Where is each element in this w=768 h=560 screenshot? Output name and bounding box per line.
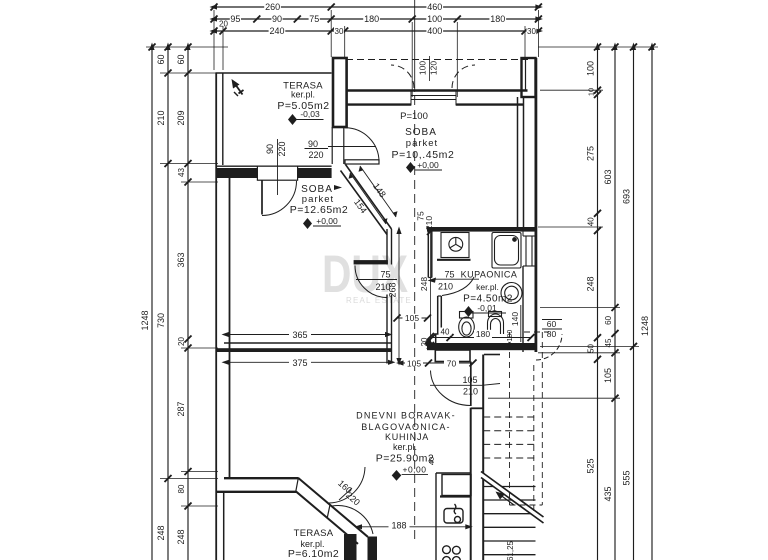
door/window right wall with dashed swing xyxy=(536,334,562,360)
dim 100/120 rotated window xyxy=(418,56,439,81)
terasa top edge xyxy=(216,72,332,74)
kitchen stove xyxy=(443,546,451,554)
svg-text:30: 30 xyxy=(527,27,536,36)
svg-text:70: 70 xyxy=(447,358,457,368)
svg-text:P=25.90m2: P=25.90m2 xyxy=(376,452,435,464)
svg-text:603: 603 xyxy=(603,169,613,184)
svg-text:180: 180 xyxy=(364,14,379,24)
wall terasa bottom / soba top xyxy=(216,58,537,560)
svg-text:95: 95 xyxy=(230,14,240,24)
svg-text:30: 30 xyxy=(335,27,344,36)
svg-text:400: 400 xyxy=(427,26,442,36)
svg-text:90: 90 xyxy=(265,144,275,154)
dimension chain right 100/10/275/40/248/50/525 xyxy=(586,43,602,560)
svg-text:90: 90 xyxy=(272,14,282,24)
dimension chain right 1248 xyxy=(640,43,656,560)
svg-text:1248: 1248 xyxy=(140,310,150,330)
wall soba bottom xyxy=(217,348,392,352)
svg-text:90: 90 xyxy=(308,139,318,149)
dim 90/220 rotated (soba door) xyxy=(265,139,287,195)
svg-text:120: 120 xyxy=(429,61,439,75)
centre axis line xyxy=(414,0,416,540)
extension lines left xyxy=(146,47,228,506)
svg-text:10: 10 xyxy=(587,88,596,96)
door terasa to soba (90/220) xyxy=(345,128,379,164)
svg-text:105: 105 xyxy=(462,375,477,385)
svg-text:275: 275 xyxy=(586,146,596,161)
svg-text:210: 210 xyxy=(424,216,434,230)
svg-text:209: 209 xyxy=(176,110,186,125)
dim 160/220 rotated terrace door xyxy=(336,478,362,507)
svg-text:75: 75 xyxy=(380,270,390,280)
wall terrace west parapet inner face xyxy=(223,492,225,560)
dim 75/210 hall door xyxy=(356,270,397,293)
svg-text:220: 220 xyxy=(277,141,287,156)
svg-text:43: 43 xyxy=(177,168,186,177)
room label living room xyxy=(356,410,456,481)
watermark DUX logo xyxy=(322,245,412,305)
door hall to soba (75/210) xyxy=(354,261,388,298)
dimension chain left 60/210/730/248 xyxy=(156,43,172,560)
wall bathroom left upper xyxy=(427,232,429,278)
svg-text:180: 180 xyxy=(476,329,490,339)
wall bathroom bottom xyxy=(427,343,535,350)
balcony slab edge xyxy=(346,89,528,91)
svg-text:248: 248 xyxy=(586,276,596,291)
dim 75/210 rotated bathroom door xyxy=(416,211,435,230)
svg-text:P=6.10m2: P=6.10m2 xyxy=(288,548,339,560)
wall soba bottom top face xyxy=(224,342,392,344)
wall terrace north edge xyxy=(216,491,296,493)
svg-text:60: 60 xyxy=(156,54,166,64)
svg-text:555: 555 xyxy=(622,470,632,485)
svg-text:BLAGOVAONICA-: BLAGOVAONICA- xyxy=(361,422,450,432)
kitchen sink xyxy=(444,509,463,524)
room label kupaonica xyxy=(428,270,518,318)
dim 268 hall xyxy=(388,227,402,366)
svg-text:-0,03: -0,03 xyxy=(300,109,320,119)
svg-text:210: 210 xyxy=(156,110,166,125)
svg-text:248: 248 xyxy=(419,277,429,291)
wall terasa/soba partition xyxy=(333,58,347,127)
dim 140 rotated bathroom xyxy=(510,305,521,342)
svg-text:100: 100 xyxy=(418,61,428,75)
room label terasa top xyxy=(277,81,329,126)
entrance doorstep xyxy=(435,350,470,362)
wall soba east xyxy=(517,97,519,227)
svg-text:105: 105 xyxy=(407,358,421,368)
svg-text:+0,00: +0,00 xyxy=(316,216,338,226)
wall terrace right stub xyxy=(344,534,357,560)
svg-text:100: 100 xyxy=(586,61,596,76)
svg-text:20: 20 xyxy=(177,337,186,346)
svg-text:+0,00: +0,00 xyxy=(417,160,439,170)
svg-text:75: 75 xyxy=(309,14,319,24)
dim 60/80 right wall xyxy=(542,319,562,339)
svg-text:210: 210 xyxy=(463,387,478,397)
svg-text:40: 40 xyxy=(441,327,450,336)
wall bathroom left lower xyxy=(437,296,439,334)
svg-text:287: 287 xyxy=(176,401,186,416)
dimension chain right 603/60/45/105/435 xyxy=(603,43,619,560)
svg-text:40: 40 xyxy=(427,457,436,465)
svg-text:260: 260 xyxy=(265,2,280,12)
dimension chain top row3 20/240/30/400/30 xyxy=(210,20,544,37)
balcony dashed outline top xyxy=(346,60,528,89)
room label soba north xyxy=(392,127,455,173)
svg-text:75: 75 xyxy=(444,270,454,280)
svg-text:50: 50 xyxy=(587,344,596,353)
kitchen counter xyxy=(436,473,471,560)
svg-text:KUHINJA: KUHINJA xyxy=(385,432,429,442)
svg-text:61,25: 61,25 xyxy=(506,540,515,560)
dim 90/220 horizontal (terasa door) xyxy=(305,139,377,160)
wall living room south edge xyxy=(224,477,299,479)
svg-text:20: 20 xyxy=(219,20,228,29)
svg-text:180: 180 xyxy=(490,14,505,24)
door entrance (105/210) xyxy=(431,362,471,407)
dimension chain right 693/555 xyxy=(622,43,638,560)
svg-text:-0,01: -0,01 xyxy=(477,303,497,313)
room label terasa bottom xyxy=(288,528,339,560)
svg-text:248: 248 xyxy=(156,525,166,540)
dim 248/20 rotated bathroom wall xyxy=(419,228,434,349)
svg-text:248: 248 xyxy=(176,529,186,544)
svg-text:105: 105 xyxy=(603,368,613,383)
bathtub xyxy=(492,233,521,269)
bidet xyxy=(488,312,504,335)
stairs diagonal break xyxy=(481,472,544,524)
wall diagonal soba/hall xyxy=(346,165,392,230)
svg-text:ker.pl.: ker.pl. xyxy=(291,90,315,100)
stairs xyxy=(481,417,544,555)
svg-text:365: 365 xyxy=(292,330,307,340)
dimension chain left 60/209/43/363/20/287/80/248 xyxy=(176,43,192,560)
svg-text:105: 105 xyxy=(405,313,419,323)
svg-text:DNEVNI BORAVAK-: DNEVNI BORAVAK- xyxy=(356,410,456,420)
svg-text:60: 60 xyxy=(176,54,186,64)
svg-text:P=100: P=100 xyxy=(507,330,514,351)
dim 105/70 entrance line xyxy=(396,358,477,368)
washing machine xyxy=(437,233,471,260)
dim diagonal 148 xyxy=(359,166,398,217)
svg-text:240: 240 xyxy=(269,26,284,36)
svg-text:268: 268 xyxy=(388,282,398,297)
svg-text:P=100: P=100 xyxy=(400,111,428,122)
wall right exterior face xyxy=(535,58,538,352)
dimension chain top row1 260/460 xyxy=(210,2,543,12)
svg-text:220: 220 xyxy=(308,150,323,160)
svg-text:730: 730 xyxy=(156,313,166,328)
svg-text:525: 525 xyxy=(586,458,596,473)
svg-text:80: 80 xyxy=(177,484,186,493)
extension lines right xyxy=(488,47,658,398)
svg-text:KUPAONICA: KUPAONICA xyxy=(461,270,518,280)
svg-text:693: 693 xyxy=(622,189,632,204)
svg-text:REAL ESTATE: REAL ESTATE xyxy=(346,296,412,305)
wall balcony parapet right xyxy=(522,58,536,97)
svg-text:435: 435 xyxy=(603,486,613,501)
dim 40/180 bathroom xyxy=(429,327,535,341)
room label soba west xyxy=(290,184,349,229)
label p=100 window parapet xyxy=(400,111,428,122)
balcony dashed outline over stairs xyxy=(510,332,550,515)
toilet xyxy=(459,312,475,338)
dimension chain left 1248 xyxy=(140,43,156,560)
dim 365 soba xyxy=(222,330,393,340)
wall corner stub right of terrace xyxy=(368,537,378,560)
north arrow xyxy=(232,79,244,96)
boiler circle xyxy=(501,283,522,304)
wall bathroom top xyxy=(427,227,535,232)
window north wall xyxy=(411,90,456,106)
kitchen upper unit xyxy=(442,475,471,496)
svg-text:100: 100 xyxy=(427,14,442,24)
svg-text:140: 140 xyxy=(510,312,520,326)
wall bathroom east inner face xyxy=(522,227,524,236)
svg-text:363: 363 xyxy=(176,252,186,267)
dim 188 terrace xyxy=(355,521,473,531)
wall left exterior inner face xyxy=(229,170,231,478)
svg-text:188: 188 xyxy=(391,521,406,531)
dim 105/210 entrance door label xyxy=(430,375,500,397)
svg-text:20: 20 xyxy=(420,337,429,346)
svg-text:ker.pl.: ker.pl. xyxy=(393,442,417,452)
svg-text:60: 60 xyxy=(604,315,613,324)
svg-text:SOBA: SOBA xyxy=(405,127,437,138)
dim 375 living xyxy=(222,358,396,368)
window bathroom east xyxy=(525,236,527,266)
svg-text:parket: parket xyxy=(406,138,438,149)
svg-text:80: 80 xyxy=(547,329,557,339)
door terrace diagonal (160/220) xyxy=(296,467,373,544)
svg-text:P=12.65m2: P=12.65m2 xyxy=(290,204,349,216)
dimension chain top row2 95/90/75/180/100/180 xyxy=(210,14,543,24)
wall hall east (outlined) xyxy=(386,229,388,265)
dim 105 niche xyxy=(394,313,432,323)
label stairs 61,25 xyxy=(506,330,515,560)
svg-text:40: 40 xyxy=(587,217,596,226)
svg-text:460: 460 xyxy=(427,2,442,12)
wall stair left outlined xyxy=(482,355,484,560)
svg-text:+0,00: +0,00 xyxy=(402,465,426,475)
svg-text:210: 210 xyxy=(438,282,453,292)
door bathroom (75/210) xyxy=(442,277,474,296)
extension lines top xyxy=(214,10,538,97)
svg-text:60: 60 xyxy=(547,319,557,329)
svg-text:ker.pl.: ker.pl. xyxy=(476,282,499,292)
dim diagonal 154 xyxy=(349,173,388,224)
wall left parapet of terasa xyxy=(216,58,537,560)
svg-text:1248: 1248 xyxy=(640,316,650,336)
svg-text:375: 375 xyxy=(292,358,307,368)
door terasa to soba2 lower (90/220) xyxy=(216,166,332,215)
svg-text:TERASA: TERASA xyxy=(294,528,334,539)
